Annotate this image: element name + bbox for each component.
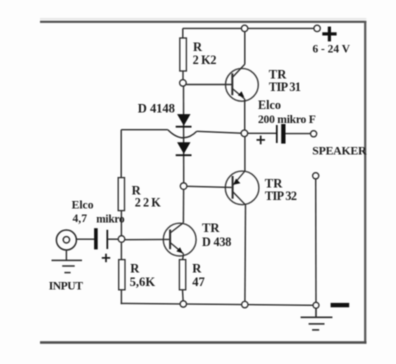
transistor Q3 D438 [125, 223, 196, 256]
wire R1 top lead [182, 28, 184, 38]
node speaker terminal upper [311, 131, 317, 137]
resistor R 2.2K [118, 178, 124, 211]
node ground rail speaker return [313, 302, 319, 308]
node R1/D1/TIP31-base junction [180, 80, 187, 87]
node speaker terminal lower [313, 173, 319, 179]
transistor Q1 TIP31 [186, 64, 258, 101]
wire speaker return [315, 179, 317, 305]
ground symbol input [52, 260, 83, 272]
node positive supply terminal [314, 25, 320, 31]
node output junction [241, 130, 248, 137]
svg-text:2 K2: 2 K2 [193, 53, 217, 67]
node input base junction [118, 236, 125, 243]
ground symbol main [301, 308, 333, 330]
wire crossover hop arc [168, 130, 197, 138]
transistor Q2 TIP32 [187, 171, 259, 205]
svg-text:4,7: 4,7 [73, 212, 88, 225]
wire feedback vertical to R2 [120, 130, 122, 178]
wire top supply rail [183, 27, 317, 29]
wire jack to C1 [76, 238, 94, 240]
wire feedback left segment [121, 129, 168, 131]
svg-text:R: R [192, 262, 202, 276]
resistor R4 47 [179, 260, 185, 290]
svg-text:TR: TR [202, 221, 220, 235]
wire ground rail [121, 303, 316, 305]
svg-text:mikro: mikro [96, 214, 125, 226]
svg-text:5,6K: 5,6K [130, 275, 156, 289]
node ground rail TIP32 [242, 301, 248, 307]
wire feedback right segment to output node [197, 131, 241, 133]
resistor R 2K2 [180, 38, 187, 71]
wire TIP31 emitter to output node [244, 99, 246, 133]
svg-text:6 - 24 V: 6 - 24 V [313, 44, 351, 56]
svg-text:SPEAKER: SPEAKER [312, 144, 367, 158]
C2 plus polarity mark [257, 136, 266, 145]
svg-text:D 4148: D 4148 [138, 101, 175, 115]
svg-text:INPUT: INPUT [49, 280, 84, 293]
svg-text:D 438: D 438 [202, 235, 231, 249]
svg-text:2 2 K: 2 2 K [135, 195, 161, 209]
svg-text:TIP 32: TIP 32 [265, 189, 297, 203]
svg-text:200 mikro F: 200 mikro F [258, 113, 316, 126]
wire R2 bottom lead [120, 211, 122, 240]
node junction on supply rail [241, 25, 247, 31]
svg-text:Elco: Elco [258, 98, 281, 112]
wire D438 collector from node [182, 189, 184, 222]
battery minus symbol [331, 303, 350, 307]
svg-text:R: R [193, 40, 203, 54]
diode D1 [176, 114, 192, 127]
resistor R3 5,6K [119, 260, 125, 290]
node diode/TIP32-base/D438-collector junction [180, 183, 187, 190]
wire D438 emitter lead [182, 254, 185, 260]
svg-text:Elco: Elco [72, 199, 94, 212]
wire TIP32 emitter from output node [244, 137, 246, 171]
diode D2 [176, 142, 192, 155]
capacitor C2 Elco 200 [248, 124, 311, 144]
wire R3 bottom lead [120, 290, 122, 304]
wire jack ground stem [65, 250, 67, 260]
wire R1 bottom lead [182, 71, 184, 83]
battery plus symbol [322, 27, 336, 42]
capacitor C1 Elco 4,7 [94, 228, 118, 249]
wire TIP31 collector drop [244, 28, 246, 64]
C1 plus polarity mark [102, 254, 110, 263]
wire TIP32 collector to ground rail [244, 205, 247, 304]
wire node to R3 [120, 243, 122, 260]
wire diode chain vertical [183, 83, 185, 186]
svg-text:TIP 31: TIP 31 [269, 80, 301, 94]
svg-text:R: R [130, 261, 140, 275]
node ground rail R47 [180, 301, 186, 307]
svg-text:47: 47 [192, 275, 205, 289]
connector input jack [56, 230, 76, 250]
wire R4 bottom lead [182, 290, 185, 304]
